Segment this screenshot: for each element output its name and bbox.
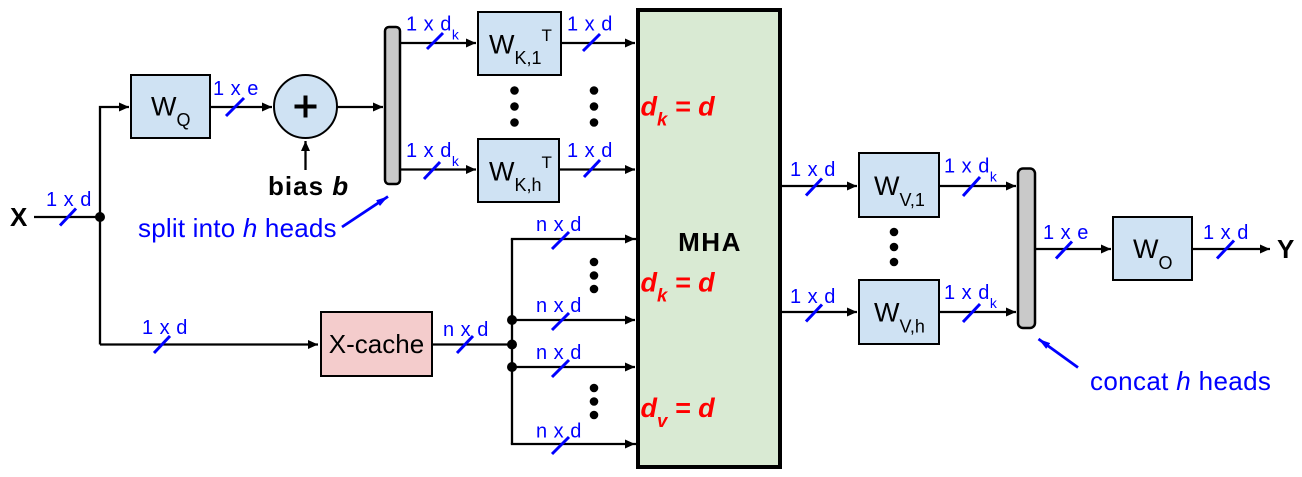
wire X to junction (34, 216, 100, 218)
bus slash (552, 437, 569, 454)
wire n x d 3 to MHA (512, 366, 635, 368)
bus slash (1217, 241, 1234, 259)
svg-text:1 x e: 1 x e (1043, 222, 1089, 244)
bus slash (427, 33, 443, 49)
wire W_Vh to concat bar (939, 311, 1016, 313)
wire adder to split bar (338, 106, 384, 108)
svg-text:n x d: n x d (536, 295, 582, 317)
ellipsis between W_K boxes (510, 86, 519, 95)
wire MHA to W_Vh (780, 311, 857, 313)
ellipsis between n x d 1 and 2 (590, 258, 599, 267)
ellipsis between W_V boxes (890, 228, 899, 237)
bus slash (552, 360, 569, 377)
block W_Q (131, 75, 210, 138)
wire W_K1 to MHA (561, 42, 635, 44)
wire n x d 2 to MHA (512, 319, 635, 321)
bus slash 1 x e (226, 98, 244, 116)
wire split bar to W_K1 (400, 42, 476, 44)
svg-text:1 x dk: 1 x dk (944, 282, 998, 311)
wire W_Q to adder (210, 106, 272, 108)
wire W_Kh to MHA (559, 168, 635, 170)
block W_K1 (478, 12, 561, 75)
annotation arrow to split bar (342, 197, 388, 228)
block X-cache (321, 312, 432, 376)
bus slash (1056, 242, 1072, 259)
adder plus sign (295, 105, 317, 109)
svg-text:n x d: n x d (443, 319, 489, 341)
bus slash (806, 179, 822, 196)
block W_V1 (859, 153, 939, 217)
arrow bias to adder (304, 141, 306, 170)
bus slash (input) (60, 209, 76, 226)
wire W_V1 to concat bar (939, 185, 1016, 187)
svg-text:1 x d: 1 x d (790, 159, 836, 181)
split bar (385, 27, 400, 184)
junction dot on X trunk (95, 212, 105, 222)
junction dots on fan trunk (507, 315, 517, 325)
svg-text:1 x d: 1 x d (142, 317, 188, 339)
bus slash (424, 162, 440, 179)
wire vertical trunk (99, 217, 101, 345)
svg-text:MHA: MHA (678, 227, 742, 257)
wire W_O to Y (1192, 248, 1270, 250)
svg-text:1 x dk: 1 x dk (406, 14, 460, 43)
block W_Vh (859, 280, 939, 344)
bus slash (584, 160, 600, 177)
annotation arrow to concat bar (1039, 339, 1079, 368)
svg-text:n x d: n x d (536, 214, 582, 236)
bus slash (963, 177, 980, 196)
bus slash (552, 232, 569, 249)
svg-text:Y: Y (1277, 234, 1294, 264)
wire MHA to W_V1 (780, 185, 857, 187)
ellipsis between n x d 3 and 4 (590, 384, 599, 393)
svg-text:split into h heads: split into h heads (138, 213, 337, 243)
svg-text:1 x dk: 1 x dk (406, 140, 460, 169)
svg-text:1 x d: 1 x d (1203, 222, 1249, 244)
svg-text:concat h heads: concat h heads (1090, 366, 1271, 396)
svg-text:1 x d: 1 x d (46, 189, 92, 211)
svg-text:n x d: n x d (536, 342, 582, 364)
fan vertical trunk (511, 239, 513, 444)
block W_Kh (478, 139, 559, 202)
svg-text:1 x e: 1 x e (213, 78, 259, 100)
wire concat bar to W_O (1035, 248, 1111, 250)
svg-text:X-cache: X-cache (329, 329, 424, 359)
wire trunk to X-cache (100, 343, 318, 345)
bus slash (806, 305, 822, 322)
bus slash (154, 336, 170, 353)
svg-text:bias b: bias b (268, 171, 349, 201)
svg-text:n x d: n x d (536, 421, 582, 443)
bus slash (963, 304, 980, 322)
wire trunk to W_Q (100, 107, 129, 217)
wire split bar to W_Kh (400, 168, 476, 170)
wire n x d 1 to MHA (512, 238, 635, 240)
svg-text:1 x d: 1 x d (790, 286, 836, 308)
bus slash (583, 34, 600, 51)
block W_O (1113, 217, 1192, 280)
wire n x d 4 to MHA (512, 443, 635, 445)
block MHA (638, 10, 780, 467)
svg-text:1 x d: 1 x d (567, 14, 613, 36)
svg-text:1 x dk: 1 x dk (944, 156, 998, 185)
concat bar (1018, 169, 1035, 329)
adder circle (274, 75, 337, 138)
svg-text:1 x d: 1 x d (567, 140, 613, 162)
svg-text:X: X (10, 202, 28, 232)
ellipsis between WK output wires (590, 86, 599, 95)
bus slash (457, 336, 473, 353)
wire X-cache to fan trunk (432, 343, 512, 345)
bus slash (552, 313, 569, 330)
